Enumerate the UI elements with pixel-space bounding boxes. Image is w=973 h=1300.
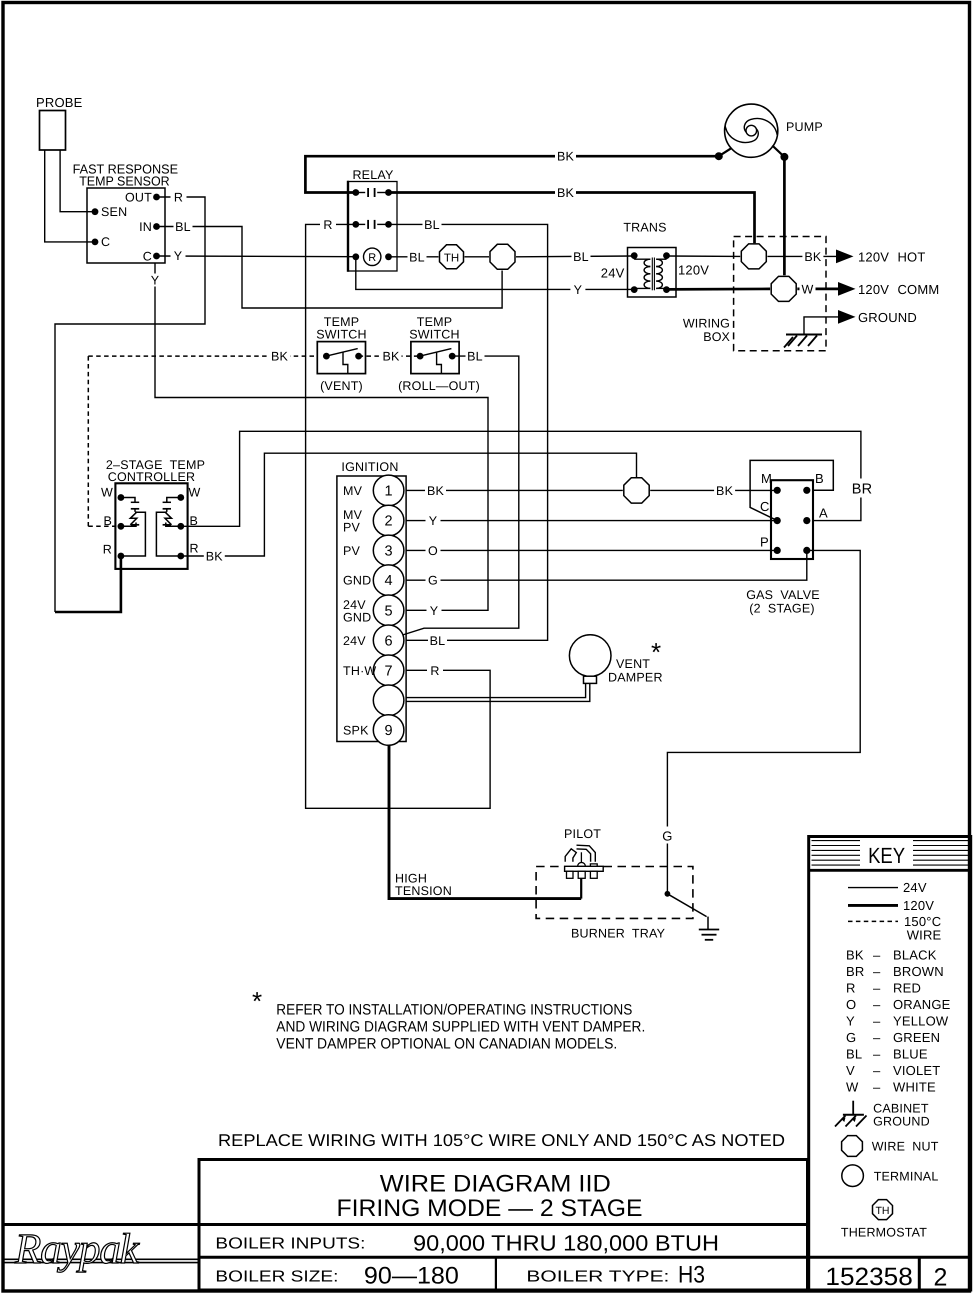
svg-text:WIRE NUT: WIRE NUT: [872, 1140, 939, 1154]
wire BL relay coil-right to TH thermostat: [389, 256, 439, 258]
svg-text:(ROLL—OUT): (ROLL—OUT): [398, 379, 480, 393]
svg-text:TH·W: TH·W: [343, 664, 376, 678]
svg-text:BL: BL: [846, 1047, 862, 1062]
svg-text:R: R: [174, 191, 183, 205]
svg-text:1: 1: [385, 483, 393, 499]
svg-text:C: C: [760, 499, 770, 514]
svg-text:R: R: [190, 542, 199, 556]
wire dashed BK 150C from controller B to vent switch: [88, 355, 317, 357]
wire BK to 120V HOT arrow: [767, 255, 837, 257]
svg-text:90,000 THRU 180,000 BTUH: 90,000 THRU 180,000 BTUH: [413, 1231, 719, 1256]
wire G gas valve ground to pilot ground: [667, 550, 860, 893]
key terminal symbol: [842, 1165, 864, 1187]
arrow 120V HOT: [836, 250, 854, 264]
svg-text:R: R: [846, 981, 856, 996]
svg-text:BL: BL: [430, 634, 446, 648]
transformer windings: [644, 259, 650, 266]
svg-text:M: M: [761, 471, 772, 486]
svg-text:SWITCH: SWITCH: [409, 328, 460, 342]
wire nut W3 comm: [771, 276, 796, 301]
pilot right hood: [577, 845, 596, 862]
wire Y: sensor C to relay coil-left: [157, 255, 356, 258]
svg-text:BK: BK: [271, 350, 289, 364]
svg-text:W: W: [846, 1080, 859, 1095]
svg-text:Y: Y: [151, 274, 160, 288]
svg-text:*: *: [651, 637, 661, 667]
svg-text:Y: Y: [846, 1014, 855, 1029]
svg-text:Y: Y: [174, 249, 183, 263]
svg-text:Y: Y: [429, 514, 438, 528]
svg-text:BK: BK: [846, 948, 864, 963]
svg-text:–: –: [873, 1080, 881, 1095]
svg-text:R: R: [368, 252, 376, 264]
cabinet ground pilot: [707, 917, 709, 930]
terminal OUT: [153, 194, 160, 201]
wire nut octagon W1: [490, 244, 515, 269]
key header hatching: [812, 840, 861, 842]
svg-text:BR: BR: [852, 482, 873, 498]
svg-text:120V: 120V: [903, 898, 934, 913]
wire BK thick from relay row1 to pump: [305, 156, 718, 192]
wire ground arrow to cabinet ground: [804, 317, 838, 335]
svg-text:2: 2: [385, 514, 393, 530]
wire dashed BK between temp switches: [359, 355, 421, 357]
svg-text:V: V: [846, 1063, 855, 1078]
wiring box dashed enclosure: [734, 237, 826, 351]
ground switch dot: [665, 891, 671, 897]
svg-text:(VENT): (VENT): [320, 379, 363, 393]
svg-text:GND: GND: [343, 574, 371, 588]
svg-text:BK: BK: [716, 484, 734, 498]
svg-text:O: O: [846, 997, 856, 1012]
transformer terminals: [631, 252, 638, 259]
key box frame: [809, 837, 971, 1291]
svg-text:B: B: [815, 471, 824, 486]
wire BR controller B-right to gas valve A: [181, 431, 861, 526]
svg-text:3: 3: [385, 543, 393, 559]
wire probe-right to sensor SEN: [60, 150, 92, 212]
svg-text:RELAY: RELAY: [352, 168, 394, 182]
svg-text:A: A: [819, 506, 828, 521]
svg-text:120V COMM: 120V COMM: [858, 282, 939, 297]
svg-text:–: –: [873, 1063, 881, 1078]
svg-text:YELLOW: YELLOW: [893, 1014, 949, 1029]
svg-text:BOILER INPUTS:: BOILER INPUTS:: [215, 1236, 365, 1253]
svg-text:SPK: SPK: [343, 724, 369, 738]
svg-text:BK: BK: [206, 550, 224, 564]
pump right terminal: [772, 146, 784, 157]
pilot center electrode: [580, 852, 582, 862]
svg-text:BL: BL: [424, 218, 440, 232]
controller terminals left W B R: [118, 494, 125, 501]
svg-text:G: G: [846, 1030, 856, 1045]
svg-text:R: R: [430, 664, 439, 678]
svg-text:VENT DAMPER OPTIONAL ON CANADI: VENT DAMPER OPTIONAL ON CANADIAN MODELS.: [276, 1036, 617, 1053]
vent damper: [569, 635, 611, 677]
svg-text:–: –: [873, 1047, 881, 1062]
svg-text:90—180: 90—180: [364, 1263, 459, 1290]
wire dashed vertical to controller B-left: [87, 356, 89, 526]
key sample 24V wire: [848, 887, 898, 889]
svg-text:OUT: OUT: [125, 191, 152, 205]
svg-text:GROUND: GROUND: [858, 310, 917, 325]
svg-text:VENT: VENT: [616, 657, 650, 671]
key wire nut symbol: [842, 1136, 863, 1157]
burner tray dashed enclosure: [536, 867, 693, 919]
svg-text:7: 7: [385, 663, 393, 679]
ignition pin8 double wire to vent damper: [406, 683, 586, 697]
key sample 120V wire: [848, 904, 898, 907]
svg-text:BK: BK: [382, 350, 400, 364]
svg-text:WIRING: WIRING: [683, 317, 730, 331]
svg-text:SWITCH: SWITCH: [316, 328, 367, 342]
svg-text:TRANS: TRANS: [623, 221, 666, 235]
svg-text:VIOLET: VIOLET: [893, 1063, 940, 1078]
controller switch left internals: [121, 498, 135, 503]
svg-text:WHITE: WHITE: [893, 1080, 936, 1095]
key cabinet ground symbol: [852, 1101, 854, 1115]
wire R from relay row2 down to ignition pin7: [306, 224, 491, 808]
svg-text:6: 6: [385, 633, 393, 649]
wire thick R to controller R-left terminal: [55, 556, 121, 612]
ignition pin wires: [406, 489, 623, 491]
title block frame: [199, 1160, 808, 1291]
label BK top wire: [555, 150, 576, 163]
svg-text:TEMP SENSOR: TEMP SENSOR: [79, 174, 170, 189]
svg-text:(2 STAGE): (2 STAGE): [749, 602, 815, 616]
svg-text:PILOT: PILOT: [564, 827, 601, 841]
svg-text:*: *: [252, 986, 262, 1016]
svg-text:G: G: [428, 574, 438, 588]
svg-text:–: –: [873, 1014, 881, 1029]
svg-text:W: W: [189, 486, 201, 500]
svg-text:BROWN: BROWN: [893, 964, 944, 979]
svg-text:PROBE: PROBE: [36, 95, 83, 110]
svg-text:BOILER TYPE:: BOILER TYPE:: [526, 1269, 669, 1286]
svg-text:WIRE: WIRE: [907, 928, 942, 943]
svg-text:C: C: [143, 250, 152, 264]
wire BL from wire nut to transformer 24V top: [516, 255, 634, 258]
key sample 150C dashed wire: [848, 920, 898, 922]
svg-text:C: C: [101, 235, 110, 249]
svg-text:GREEN: GREEN: [893, 1030, 940, 1045]
svg-text:CONTROLLER: CONTROLLER: [108, 470, 195, 484]
wire trans 120V top to wire nut: [667, 255, 741, 257]
svg-text:24V: 24V: [343, 634, 366, 648]
svg-text:2: 2: [934, 1264, 948, 1292]
svg-text:PV: PV: [343, 544, 361, 558]
svg-text:DAMPER: DAMPER: [608, 671, 663, 685]
svg-text:ORANGE: ORANGE: [893, 997, 951, 1012]
svg-text:W: W: [101, 486, 113, 500]
terminal C right: [153, 253, 160, 260]
svg-text:THERMOSTAT: THERMOSTAT: [841, 1226, 927, 1240]
svg-text:152358: 152358: [825, 1263, 912, 1291]
svg-text:RED: RED: [893, 981, 921, 996]
svg-text:BLUE: BLUE: [893, 1047, 928, 1062]
svg-text:24V: 24V: [601, 266, 625, 281]
pilot left electrode: [565, 849, 576, 862]
svg-text:120V: 120V: [678, 263, 709, 278]
cabinet ground symbol wiring box: [786, 334, 822, 336]
svg-text:CABINET: CABINET: [873, 1102, 929, 1116]
svg-text:9: 9: [385, 723, 393, 739]
svg-text:P: P: [760, 535, 769, 550]
svg-text:–: –: [873, 964, 881, 979]
svg-text:Y: Y: [430, 604, 439, 618]
svg-text:BL: BL: [175, 220, 191, 234]
svg-text:REFER TO INSTALLATION/OPERATIN: REFER TO INSTALLATION/OPERATING INSTRUCT…: [276, 1001, 632, 1018]
terminal IN: [153, 223, 160, 230]
wire probe-left to sensor C: [45, 150, 92, 242]
svg-text:BK: BK: [804, 250, 822, 264]
svg-text:WIRE DIAGRAM IID: WIRE DIAGRAM IID: [380, 1171, 611, 1198]
svg-text:TENSION: TENSION: [395, 884, 452, 898]
svg-text:BL: BL: [467, 350, 483, 364]
gas valve jumper loop B to C: [750, 460, 833, 520]
wire TH to wire nut: [465, 256, 490, 258]
svg-text:24V: 24V: [903, 880, 927, 895]
wire thick trans 120V bottom to wire nut 3: [667, 288, 771, 291]
gas valve GAS VALVE 2 STAGE: [771, 480, 813, 559]
relay contact row2: [352, 221, 359, 228]
svg-text:GND: GND: [343, 610, 371, 624]
svg-text:BK: BK: [427, 484, 445, 498]
wire thick pump right to wiring box wire nut 2: [783, 157, 786, 275]
svg-text:BOILER SIZE:: BOILER SIZE:: [215, 1269, 338, 1286]
svg-text:–: –: [873, 1030, 881, 1045]
svg-text:TH: TH: [876, 1205, 890, 1217]
svg-text:TH: TH: [444, 252, 459, 264]
svg-text:GAS VALVE: GAS VALVE: [746, 588, 820, 602]
ground switch blade: [667, 894, 706, 917]
gas valve terminals: [774, 487, 781, 494]
svg-text:BL: BL: [573, 250, 589, 264]
svg-text:SEN: SEN: [101, 205, 127, 219]
svg-text:FIRING MODE — 2 STAGE: FIRING MODE — 2 STAGE: [337, 1195, 643, 1222]
ignition pin wire labels: [425, 484, 446, 497]
wire BK thick from relay row1-right to wiring box wire nut: [389, 193, 755, 244]
svg-text:BL: BL: [409, 250, 425, 264]
wire BL from roll-out switch to ignition pin6 diagonal: [403, 356, 519, 635]
pump left terminal: [719, 148, 732, 156]
svg-text:4: 4: [385, 573, 393, 589]
svg-text:BURNER TRAY: BURNER TRAY: [571, 927, 666, 941]
svg-text:IN: IN: [139, 220, 152, 234]
svg-text:H3: H3: [678, 1262, 705, 1289]
svg-text:R: R: [103, 543, 112, 557]
wire BK controller R-right to wire nut above gas valve: [181, 453, 637, 556]
relay coil R row3: [352, 253, 359, 260]
terminal C left: [92, 239, 99, 246]
svg-text:Raypak: Raypak: [14, 1226, 140, 1273]
svg-text:BR: BR: [846, 964, 864, 979]
svg-text:PV: PV: [343, 521, 361, 535]
svg-text:PUMP: PUMP: [786, 120, 823, 134]
arrow 120V COMM: [838, 282, 856, 296]
svg-text:BK: BK: [557, 150, 575, 164]
svg-text:AND WIRING DIAGRAM SUPPLIED WI: AND WIRING DIAGRAM SUPPLIED WITH VENT DA…: [276, 1019, 645, 1036]
svg-text:B: B: [103, 514, 112, 528]
label BK relay wire: [555, 186, 576, 199]
logo Raypak: [5, 1258, 198, 1260]
wire SPK high tension thick: [389, 745, 581, 899]
wire nut W4 near ignition: [624, 478, 649, 503]
svg-text:–: –: [873, 981, 881, 996]
controller switch right internals: [167, 498, 181, 503]
svg-text:O: O: [428, 544, 438, 558]
svg-text:W: W: [802, 282, 814, 296]
wire Y from relay coil-left to transformer 24V: [356, 257, 634, 290]
svg-text:–: –: [873, 997, 881, 1012]
svg-text:KEY: KEY: [868, 843, 905, 868]
svg-text:IGNITION: IGNITION: [341, 460, 398, 474]
arrow GROUND: [838, 310, 856, 324]
svg-text:Y: Y: [574, 283, 583, 297]
wire R: sensor OUT to controller R-left via left side: [55, 197, 205, 612]
key thermostat symbol: [873, 1200, 893, 1220]
pump motor PUMP: [725, 104, 778, 157]
svg-text:–: –: [873, 948, 881, 963]
label BR with line gap: [850, 479, 874, 498]
svg-text:120V HOT: 120V HOT: [858, 249, 926, 264]
svg-text:MV: MV: [343, 484, 363, 498]
wire nut W2 hot: [741, 244, 766, 269]
wire BK wire nut to gas valve M: [650, 489, 777, 491]
svg-text:BOX: BOX: [703, 330, 730, 344]
wire BL from relay row2-right down to ignition pin6: [389, 224, 548, 640]
wire Y: sensor C down to ignition pin5: [155, 263, 488, 610]
svg-text:TERMINAL: TERMINAL: [874, 1169, 939, 1183]
svg-text:REPLACE WIRING WITH 105°C WIRE: REPLACE WIRING WITH 105°C WIRE ONLY AND …: [218, 1131, 785, 1150]
controller terminals right W B R: [177, 494, 184, 501]
svg-text:G: G: [662, 829, 672, 844]
ignition terminal circles: [373, 475, 404, 506]
svg-text:R: R: [323, 218, 332, 232]
drawing number cell: [809, 1256, 971, 1259]
svg-text:BLACK: BLACK: [893, 948, 937, 963]
wire BL: sensor IN down and right to wire-nut: [157, 227, 503, 309]
relay contact row1: [352, 189, 359, 196]
thermostat TH octagon: [440, 245, 464, 269]
svg-text:5: 5: [385, 603, 393, 619]
svg-text:GROUND: GROUND: [873, 1115, 930, 1129]
svg-text:BK: BK: [557, 186, 575, 200]
terminal SEN: [92, 208, 99, 215]
wire W to 120V COMM arrow: [797, 288, 839, 291]
